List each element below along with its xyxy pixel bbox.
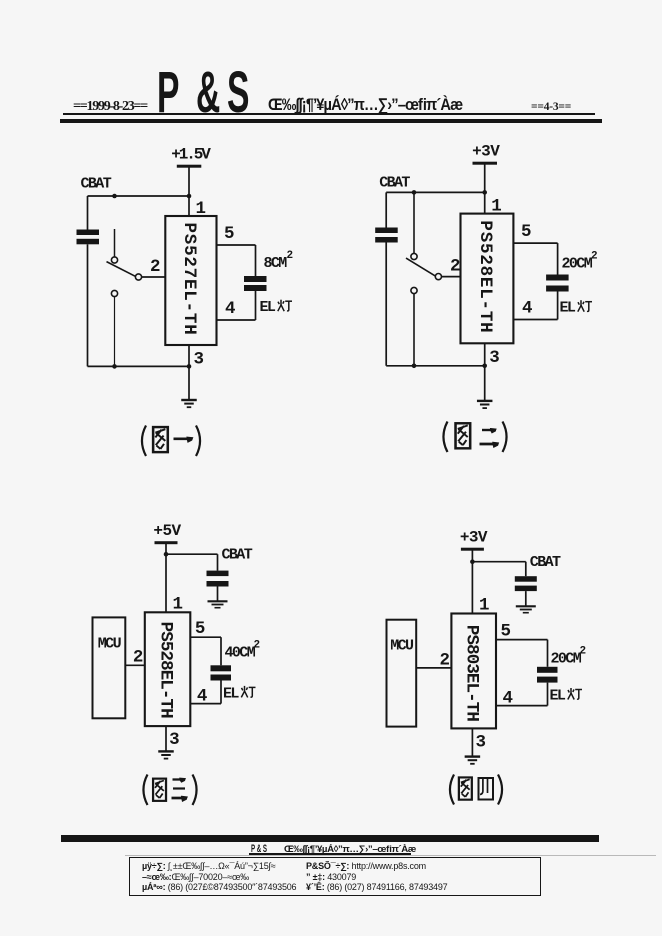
wire fig4 power to pin1	[471, 551, 473, 614]
wire fig4 pin 2 MCU	[416, 667, 451, 669]
svg-text:+5V: +5V	[153, 522, 181, 540]
svg-text:4: 4	[225, 299, 235, 319]
node fig1 top rail junction	[187, 194, 192, 199]
wire fig1 pin 3 to ground	[188, 345, 190, 400]
wire fig1 switch lower lead	[114, 297, 116, 367]
switch S fig1	[107, 257, 142, 297]
header thin rule	[63, 113, 595, 115]
svg-text:5: 5	[501, 621, 511, 641]
ground fig2	[477, 401, 493, 408]
label CBAT fig3	[222, 547, 253, 564]
svg-text:MCU: MCU	[390, 638, 414, 655]
svg-text:8CM: 8CM	[264, 255, 288, 272]
switch S fig2	[406, 253, 442, 293]
svg-text:2: 2	[287, 250, 293, 262]
label EL lamp fig4	[550, 687, 583, 704]
wire fig2 top rail	[386, 191, 485, 193]
label CBAT fig2	[379, 175, 410, 192]
wire fig1 top rail	[88, 195, 190, 197]
pin 2 label fig3	[133, 648, 143, 668]
ground fig1	[181, 400, 197, 407]
footer address line 2	[142, 872, 249, 882]
svg-text:EL: EL	[550, 687, 566, 704]
footer contact box	[129, 857, 541, 896]
ground CBAT fig4	[516, 606, 536, 612]
pin 4 label fig2	[522, 299, 532, 319]
op IC U fig3 PS528EL-TH	[145, 612, 191, 726]
svg-text:3: 3	[489, 348, 499, 368]
footer faint rule	[125, 855, 656, 856]
pin 2 label fig4	[439, 650, 449, 670]
wire fig1 pin 5 to EL	[217, 245, 256, 276]
label area 20CM fig2	[562, 251, 598, 273]
capacitor CBAT fig4	[515, 576, 537, 591]
wire fig1 bottom rail	[88, 365, 190, 367]
header thick rule	[60, 119, 602, 123]
svg-text:3: 3	[476, 732, 486, 752]
svg-text:+3V: +3V	[472, 143, 500, 161]
caption figure 3 (tu san)	[143, 775, 196, 806]
caption figure 2 (tu er)	[443, 422, 506, 453]
wire fig3 CBAT to ground	[217, 587, 219, 602]
svg-text:CBAT: CBAT	[81, 176, 112, 193]
svg-text:1: 1	[196, 199, 206, 219]
svg-text:+1.5V: +1.5V	[171, 146, 211, 164]
pin 3 label fig4	[476, 732, 486, 752]
capacitor CBAT fig3	[207, 571, 229, 587]
label area 20CM fig4	[551, 646, 586, 668]
wire fig4 pin 5 to EL	[496, 640, 548, 667]
svg-text:PS528EL-TH: PS528EL-TH	[475, 220, 495, 333]
pin 4 label fig4	[503, 688, 513, 708]
svg-text:20CM: 20CM	[562, 256, 593, 273]
op IC U fig2 PS528EL-TH	[461, 214, 514, 344]
header page number	[531, 101, 571, 113]
pin 4 label fig3	[197, 686, 207, 706]
EL lamp capacitor fig4 20CM	[537, 667, 558, 683]
label EL lamp fig1	[260, 299, 293, 316]
footer thick bar	[61, 835, 599, 842]
pin 3 label fig2	[489, 348, 499, 368]
wire fig3 pin 5 to EL	[190, 637, 221, 665]
label CBAT fig1	[81, 176, 112, 193]
wire fig3 pin 2 MCU	[125, 664, 145, 666]
svg-text:EL: EL	[223, 685, 239, 702]
pin 1 label fig2	[491, 197, 501, 217]
capacitor CBAT fig2	[375, 192, 398, 365]
footer fax line	[306, 882, 447, 892]
MCU block fig3	[93, 617, 126, 718]
wire fig3 power to pin1	[165, 544, 167, 612]
wire fig2 pin 3 to ground	[484, 343, 486, 401]
svg-text:2: 2	[150, 257, 160, 277]
svg-text:EL: EL	[560, 300, 576, 317]
label CBAT fig4	[530, 554, 561, 571]
ground fig4	[465, 757, 481, 764]
wire fig1 pin 4	[217, 291, 256, 320]
svg-text:1: 1	[173, 594, 183, 614]
svg-text:4: 4	[522, 299, 532, 319]
pin 5 label fig4	[501, 621, 511, 641]
caption figure 1 (tu yi)	[142, 426, 200, 457]
node fig2 bottom junction pin3	[482, 364, 487, 369]
wire fig3 pin 4	[190, 681, 221, 704]
svg-text:CBAT: CBAT	[379, 175, 410, 192]
node fig2 top rail junction	[482, 190, 487, 195]
power supply +5V net fig3	[153, 522, 181, 544]
header date	[73, 99, 147, 115]
ground CBAT fig3	[208, 601, 228, 607]
header company title (mojibake)	[268, 95, 494, 115]
header logo P & S	[157, 59, 196, 126]
footer phone line	[142, 882, 296, 892]
svg-text:5: 5	[521, 222, 531, 242]
node fig1 switch branch top junction	[112, 194, 117, 199]
svg-text:2: 2	[591, 251, 597, 263]
wire fig4 CBAT to ground	[525, 591, 527, 606]
node fig3 CBAT junction	[164, 552, 169, 557]
svg-text:PS803EL-TH: PS803EL-TH	[462, 625, 482, 721]
wire fig2 pin 5 to EL	[513, 243, 557, 274]
wire fig2 bottom rail	[386, 365, 485, 367]
EL lamp capacitor fig1 8CM	[244, 276, 267, 291]
svg-text:MCU: MCU	[98, 635, 122, 652]
wire fig4 pin 3 to ground	[471, 728, 473, 756]
svg-text:3: 3	[194, 350, 204, 370]
pin 3 label fig3	[169, 730, 179, 750]
pin 2 label fig2	[450, 257, 460, 277]
svg-text:2: 2	[254, 640, 260, 652]
pin 5 label fig1	[224, 224, 234, 244]
power supply +3V net fig4	[460, 529, 488, 551]
footer title underline	[249, 853, 411, 855]
wire fig3 pin 3 to ground	[165, 726, 167, 751]
svg-text:PS528EL-TH: PS528EL-TH	[156, 622, 176, 718]
svg-text:CBAT: CBAT	[222, 547, 253, 564]
power supply +1.5V net fig1	[171, 146, 211, 168]
pin 5 label fig2	[521, 222, 531, 242]
label EL lamp fig3	[223, 685, 256, 702]
svg-text:1: 1	[479, 596, 489, 616]
power supply +3V net fig2	[472, 143, 500, 165]
wire fig4 pin 4	[496, 683, 548, 706]
caption figure 4 (tu si)	[450, 775, 502, 805]
capacitor CBAT fig1	[77, 196, 100, 366]
footer logo P & S	[251, 843, 280, 855]
ground fig3	[158, 751, 174, 758]
svg-text:5: 5	[195, 619, 205, 639]
pin 1 label fig4	[479, 596, 489, 616]
footer address line 1	[142, 861, 276, 871]
svg-text:PS527EL-TH: PS527EL-TH	[179, 222, 199, 335]
pin 2 label fig1	[150, 257, 160, 277]
pin 4 label fig1	[225, 299, 235, 319]
svg-text:20CM: 20CM	[551, 651, 582, 668]
wire fig2 pin 2	[442, 276, 461, 278]
svg-text:CBAT: CBAT	[530, 554, 561, 571]
pin 1 label fig3	[173, 594, 183, 614]
EL lamp capacitor fig3 40CM	[211, 665, 232, 680]
svg-text:3: 3	[169, 730, 179, 750]
svg-text:5: 5	[224, 224, 234, 244]
wire fig2 switch lower lead	[413, 294, 415, 366]
op IC U fig1 PS527EL-TH	[165, 216, 216, 345]
wire fig4 to CBAT	[472, 562, 525, 577]
node fig2 bottom junction switch	[412, 364, 417, 369]
node fig4 CBAT junction	[470, 559, 475, 564]
wire fig2 pin 4	[513, 292, 557, 320]
svg-text:2: 2	[450, 257, 460, 277]
footer web line	[306, 861, 426, 871]
label area 8CM fig1	[264, 250, 293, 272]
wire fig1 power to pin1	[188, 168, 190, 217]
svg-text:+3V: +3V	[460, 529, 488, 547]
label area 40CM fig3	[225, 640, 260, 662]
node fig2 switch branch top junction	[412, 190, 417, 195]
footer postcode line	[306, 872, 356, 882]
svg-text:2: 2	[580, 646, 586, 658]
svg-text:40CM: 40CM	[225, 645, 256, 662]
svg-text:1: 1	[491, 197, 501, 217]
node fig1 bottom junction switch	[112, 364, 117, 369]
wire fig1 switch upper lead	[114, 229, 116, 257]
svg-text:EL: EL	[260, 299, 276, 316]
wire fig3 to CBAT	[166, 554, 218, 570]
EL lamp capacitor fig2 20CM	[546, 275, 569, 292]
pin 5 label fig3	[195, 619, 205, 639]
pin 1 label fig1	[196, 199, 206, 219]
label EL lamp fig2	[560, 300, 593, 317]
footer company title (mojibake)	[284, 844, 414, 855]
wire fig2 power to pin1	[484, 165, 486, 214]
wire fig2 switch upper lead	[413, 192, 415, 253]
pin 3 label fig1	[194, 350, 204, 370]
wire fig1 pin 2	[142, 276, 166, 278]
node fig1 bottom junction pin3	[187, 364, 192, 369]
op IC U fig4 PS803EL-TH	[451, 614, 496, 729]
MCU block fig4	[387, 620, 417, 727]
